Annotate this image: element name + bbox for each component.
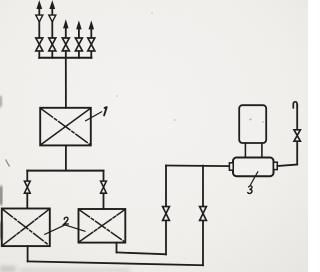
- apparatus 2 right (box with X): [79, 209, 126, 243]
- valve V10: [294, 130, 300, 141]
- wire apparatus 1 outlet: [65, 145, 67, 170]
- vessel 3 neck left side: [244, 143, 246, 158]
- wire vent riser: [296, 105, 298, 165]
- label 1: [104, 107, 107, 115]
- scanner smudge bottom band: [20, 269, 130, 272]
- dust speck above manifold: [151, 12, 153, 14]
- wire header manifold (top collecting line): [39, 57, 91, 59]
- label 3: [248, 186, 252, 194]
- wire branch 5 stem: [90, 29, 92, 58]
- apparatus 1 (box with X): [40, 108, 91, 146]
- wire riser B up: [202, 166, 204, 266]
- scanner smudge left edge upper: [0, 96, 1, 107]
- arrow branch 4: [77, 22, 82, 29]
- valve V6: [24, 181, 30, 193]
- apparatus 2 left (box with X): [2, 209, 50, 247]
- wire right box outlet down: [116, 243, 118, 253]
- vessel 3 drum body: [233, 158, 274, 177]
- wire left drop: [26, 171, 28, 209]
- arrow branch 3: [64, 20, 69, 28]
- funnel (open triangle) branch 1: [36, 15, 43, 22]
- diagonal BL-TR of left box: [3, 210, 49, 246]
- scanner smudge bottom left corner: [0, 266, 16, 272]
- valve V3: [62, 38, 69, 51]
- leader line for label 3: [251, 172, 258, 185]
- valve V4: [75, 38, 82, 51]
- wire right drop: [103, 171, 105, 209]
- diagonal TL-BR of right box: [80, 210, 125, 242]
- valve V9: [200, 207, 207, 221]
- scanner smudge left edge lower: [0, 222, 2, 239]
- label 2: [64, 217, 69, 224]
- dust speck in bottle: [250, 119, 252, 121]
- arrow branch 1: [37, 1, 42, 8]
- leader line for label 1: [86, 112, 102, 121]
- wire distribution header: [27, 170, 103, 172]
- vessel 3 neck right side: [261, 143, 263, 158]
- vessel 3 right nozzle: [274, 162, 278, 169]
- wire branch 4 stem: [78, 29, 80, 58]
- wire riser A up: [165, 166, 167, 255]
- diagonal TL-BR of apparatus 1: [41, 109, 90, 145]
- dust speck right of bottle: [262, 121, 264, 123]
- diagonal TL-BR of left box: [3, 210, 49, 246]
- wire branch 1 stem: [38, 8, 40, 58]
- valve V1: [36, 38, 43, 51]
- scanner smudge left edge mid: [0, 186, 2, 205]
- arrow branch 5: [89, 22, 94, 29]
- diagonal BL-TR of right box: [80, 210, 125, 242]
- wire vessel to vent riser: [277, 165, 297, 167]
- valve V2: [49, 38, 56, 51]
- dust speck near label 1: [116, 95, 118, 97]
- valve V7: [101, 181, 107, 193]
- wire branch 3 stem: [65, 28, 67, 38]
- valve V5: [88, 38, 95, 51]
- wire long bottom run: [28, 261, 203, 265]
- wire left box outlet down: [27, 246, 29, 261]
- arrow branch 2: [50, 1, 55, 8]
- wire header to apparatus 1: [65, 51, 67, 108]
- dust speck center field: [174, 119, 176, 121]
- funnel (open triangle) branch 2: [49, 15, 56, 22]
- vessel 3 left nozzle: [229, 163, 233, 170]
- wire branch 2 stem: [51, 8, 53, 58]
- vent gooseneck: [293, 102, 297, 108]
- vessel 3 bottle (vertical cylinder): [239, 105, 266, 143]
- leader lines for label 2: [45, 225, 85, 234]
- scanner tick near left edge: [6, 160, 10, 167]
- valve V8: [163, 207, 170, 221]
- wire header to vessel 3: [166, 165, 230, 168]
- diagonal BL-TR of apparatus 1: [41, 109, 90, 145]
- wire short bottom run: [117, 252, 167, 254]
